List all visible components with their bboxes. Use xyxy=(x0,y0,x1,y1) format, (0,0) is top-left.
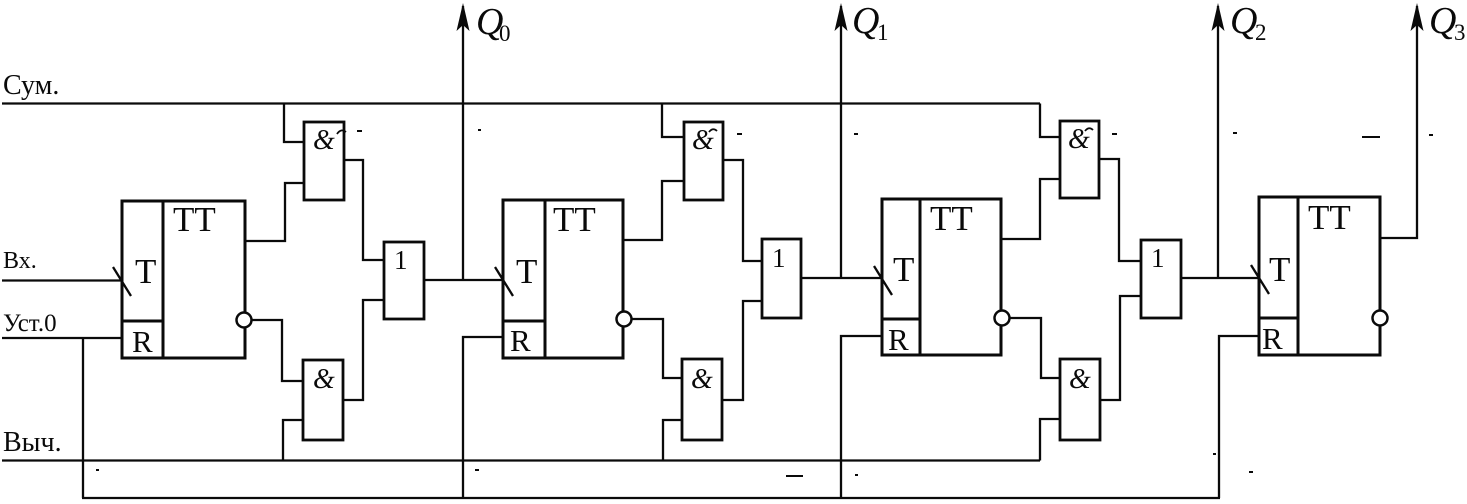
wire Ust.0 drop to bottom bus xyxy=(82,338,84,498)
wire R riser U4 xyxy=(1219,336,1259,498)
flip-flop U4 R section divider xyxy=(1259,317,1298,320)
AND gate A6 xyxy=(1060,359,1100,440)
flip-flop U4 box xyxy=(1259,197,1380,355)
svg-text:TT: TT xyxy=(553,200,596,239)
wire AND A6 output to OR D3 xyxy=(1100,296,1141,400)
flip-flop U2 T/R column divider xyxy=(544,200,547,358)
wire U2 inverted output to AND A4 xyxy=(631,319,682,378)
svg-text:R: R xyxy=(132,324,153,359)
wire U3 inverted output to AND A6 xyxy=(1009,318,1060,378)
svg-text:R: R xyxy=(888,322,909,357)
inverter circle U4 xyxy=(1373,311,1388,326)
svg-text:Уст.0: Уст.0 xyxy=(3,310,57,337)
OR gate D1 xyxy=(384,242,424,319)
wire Q0 output line xyxy=(462,6,464,280)
artifact curl near A3 ampersand xyxy=(709,129,717,132)
flip-flop U1 T/R column divider xyxy=(162,201,165,358)
AND gate A5 xyxy=(1060,121,1099,198)
svg-text:Выч.: Выч. xyxy=(3,427,62,458)
svg-text:T: T xyxy=(135,252,156,291)
arrowhead Q1 xyxy=(835,3,848,31)
wire OR D1 output to U2 T input xyxy=(424,279,503,281)
svg-text:Q: Q xyxy=(852,0,879,42)
svg-text:TT: TT xyxy=(1308,198,1351,237)
AND gate A1 xyxy=(304,122,344,200)
wire U1 Q output to AND A1 xyxy=(245,183,304,241)
svg-text:Q: Q xyxy=(1230,0,1257,42)
svg-text:T: T xyxy=(893,250,914,289)
flip-flop U1 box xyxy=(122,201,245,358)
wire OR D2 output to U3 T input xyxy=(801,277,882,279)
svg-text:R: R xyxy=(1262,321,1283,356)
artifact curl near A5 ampersand xyxy=(1085,128,1093,131)
wire AND A1 output to OR D1 xyxy=(344,160,384,260)
svg-text:R: R xyxy=(510,323,531,358)
svg-text:&: & xyxy=(313,364,335,395)
wire R riser U3 xyxy=(841,336,882,498)
wire OR D3 output to U4 T input xyxy=(1181,277,1259,279)
svg-text:1: 1 xyxy=(394,245,408,275)
flip-flop U3 T/R column divider xyxy=(919,199,922,355)
flip-flop U3 box xyxy=(882,199,1001,355)
svg-text:T: T xyxy=(1269,250,1290,289)
wire Ust.0 line (Уст.0) xyxy=(2,337,122,339)
svg-text:Q: Q xyxy=(1429,0,1456,42)
wire bottom reset bus xyxy=(82,497,1220,499)
wire Sum end drop to AND A5 xyxy=(1040,104,1060,138)
dynamic input slash U3 xyxy=(874,266,892,295)
svg-text:Сум.: Сум. xyxy=(3,70,59,101)
wire AND A2 output to OR D1 xyxy=(343,300,384,400)
wire U3 Q output to AND A5 xyxy=(1001,179,1060,239)
svg-text:2: 2 xyxy=(1255,20,1267,45)
wire Vx input line (Вх.) xyxy=(2,279,122,281)
svg-text:TT: TT xyxy=(930,199,973,238)
flip-flop U3 R section divider xyxy=(882,318,920,321)
inverter circle U1 xyxy=(237,313,252,328)
artifact curl near A1 ampersand xyxy=(337,130,346,134)
arrowhead Q3 xyxy=(1411,3,1424,31)
svg-text:T: T xyxy=(516,252,537,291)
flip-flop U2 box xyxy=(503,200,623,358)
svg-text:&: & xyxy=(1069,364,1091,395)
arrowhead Q2 xyxy=(1212,3,1225,31)
inverter circle U3 xyxy=(995,311,1010,326)
svg-text:1: 1 xyxy=(772,243,786,273)
dynamic input slash U2 xyxy=(495,267,513,296)
wire Q2 output line xyxy=(1217,6,1219,278)
wire Vych tap to AND A2 xyxy=(283,420,303,461)
dashed remnant marks top row xyxy=(357,130,1433,137)
wire Q1 output line xyxy=(840,6,842,278)
wire R riser U2 xyxy=(463,337,503,498)
wire AND A5 output to OR D3 xyxy=(1099,159,1141,261)
flip-flop U4 T/R column divider xyxy=(1297,197,1300,355)
wire AND A4 output to OR D2 xyxy=(722,301,762,400)
wire Vych tap to AND A4 xyxy=(663,420,682,461)
dynamic input slash U4 xyxy=(1251,265,1269,294)
svg-text:Вх.: Вх. xyxy=(3,248,37,274)
wire Vych end riser to AND A6 xyxy=(1040,419,1060,461)
wire AND A3 output to OR D2 xyxy=(723,160,762,261)
wire Sum bus (Сум.) xyxy=(2,102,1040,104)
svg-text:&: & xyxy=(691,364,713,395)
OR gate D2 xyxy=(762,239,801,318)
svg-text:1: 1 xyxy=(1151,243,1165,273)
svg-text:&: & xyxy=(313,125,335,156)
flip-flop U2 R section divider xyxy=(503,320,545,323)
wire Vych bus (Выч.) xyxy=(2,459,1040,461)
dashed remnant marks bottom row xyxy=(96,454,1253,476)
svg-text:1: 1 xyxy=(877,20,889,45)
AND gate A4 xyxy=(682,359,722,440)
wire U2 Q output to AND A3 xyxy=(623,181,684,240)
wire U1 inverted output to AND A2 xyxy=(251,320,303,381)
wire Sum tap to AND A3 xyxy=(662,104,684,138)
AND gate A2 xyxy=(303,360,343,440)
dynamic input slash U1 xyxy=(113,267,131,296)
inverter circle U2 xyxy=(617,312,632,327)
OR gate D3 xyxy=(1141,240,1181,318)
wire Sum tap to AND A1 xyxy=(284,104,304,143)
svg-text:0: 0 xyxy=(499,21,511,46)
svg-text:3: 3 xyxy=(1454,20,1466,45)
flip-flop U1 R section divider xyxy=(122,320,163,323)
arrowhead Q0 xyxy=(457,3,470,31)
svg-text:TT: TT xyxy=(173,200,216,239)
wire U4 Q output to Q3 xyxy=(1380,6,1417,238)
AND gate A3 xyxy=(684,122,723,200)
